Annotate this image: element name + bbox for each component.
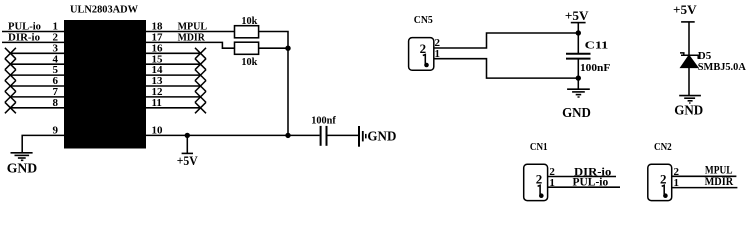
+5V power symbol (above D5) (673, 2, 697, 56)
wire pin 17 (MDIR) with jog to resistor (146, 31, 235, 48)
wire CN5 pin 1 to ground rail (434, 59, 579, 78)
svg-text:GND: GND (7, 162, 38, 177)
svg-text:CN1: CN1 (530, 142, 548, 153)
wire pin 2 (DIR-io) (2, 32, 64, 44)
wire pin 13 with no-connect X (146, 75, 206, 91)
wire CN5 pin 2 to +5V rail (434, 33, 579, 48)
svg-text:10k: 10k (241, 15, 258, 27)
svg-text:2: 2 (660, 171, 667, 186)
+5V power tap below rail (177, 135, 198, 168)
svg-text:+5V: +5V (565, 8, 589, 23)
ground symbol (right of 100nf, sideways) (359, 126, 396, 147)
svg-text:9: 9 (53, 125, 59, 137)
wire pin 3 with no-connect X (5, 42, 64, 58)
wire pin 5 with no-connect X (5, 64, 64, 80)
svg-text:10: 10 (152, 125, 164, 137)
resistor 10k (bottom) (235, 42, 259, 68)
svg-text:CN2: CN2 (654, 142, 672, 153)
svg-text:+5V: +5V (673, 2, 697, 17)
svg-text:8: 8 (53, 97, 59, 109)
wire pin 10 rail to capacitor (146, 125, 320, 137)
wire pin 18 (MPUL) to resistor (146, 21, 235, 33)
connector CN5 (409, 15, 441, 70)
connector CN1 (524, 142, 556, 201)
svg-text:GND: GND (674, 103, 703, 118)
svg-text:MPUL: MPUL (705, 165, 733, 177)
capacitor C11 100nF (566, 40, 611, 89)
ground symbol (pin 9) (7, 153, 38, 177)
svg-text:GND: GND (367, 130, 396, 145)
wire pin 16 with no-connect X (146, 42, 206, 58)
svg-text:10k: 10k (241, 56, 258, 68)
svg-text:MDIR: MDIR (178, 31, 206, 43)
wire pin 4 with no-connect X (5, 53, 64, 69)
resistor 10k (top) (235, 15, 259, 38)
junction at +5V tap (185, 133, 190, 138)
wire pin 14 with no-connect X (146, 64, 206, 80)
wire CN1 pin 1 (PUL-io) (548, 176, 620, 188)
+5V power symbol (above C11) (565, 8, 589, 54)
wire pin 15 with no-connect X (146, 53, 206, 69)
junction +5V rail meets CN5 pin2 (576, 30, 581, 35)
wire capacitor to ground (328, 134, 359, 136)
wire pin 9 to ground (22, 125, 64, 153)
capacitor 100nf (311, 115, 336, 146)
svg-text:D5: D5 (698, 50, 712, 62)
svg-text:ULN2803ADW: ULN2803ADW (70, 3, 138, 15)
svg-text:CN5: CN5 (414, 15, 433, 26)
svg-text:DIR-io: DIR-io (8, 32, 40, 44)
junction C11 bottom meets CN5 pin1 rail (576, 75, 581, 80)
wire CN1 pin 2 (DIR-io) (548, 166, 616, 178)
wire CN2 pin 1 (MDIR) (672, 176, 738, 188)
wire pin 6 with no-connect X (5, 75, 64, 91)
svg-text:SMBJ5.0A: SMBJ5.0A (698, 62, 746, 73)
svg-text:11: 11 (152, 97, 162, 109)
svg-text:MDIR: MDIR (705, 176, 734, 188)
svg-text:GND: GND (562, 105, 591, 120)
svg-text:PUL-io: PUL-io (573, 176, 609, 188)
wire from bottom resistor to junction (259, 47, 288, 49)
ground symbol (below D5) (674, 96, 703, 118)
diode D5 SMBJ5.0A (TVS) (680, 50, 746, 96)
svg-text:+5V: +5V (177, 154, 198, 168)
svg-text:2: 2 (536, 171, 543, 186)
wire pin 12 with no-connect X (146, 86, 206, 102)
wire pin 1 (PUL-io) (2, 21, 64, 33)
wire pin 7 with no-connect X (5, 86, 64, 102)
connector CN2 (648, 142, 680, 201)
ground symbol (below C11) (562, 89, 591, 120)
wire pin 8 with no-connect X (5, 97, 64, 113)
ic ULN2803ADW body (64, 3, 146, 148)
svg-text:100nF: 100nF (580, 62, 611, 74)
junction at resistor vertical on rail (285, 133, 290, 138)
svg-text:C11: C11 (585, 40, 609, 52)
wire CN2 pin 2 (MPUL) (672, 165, 737, 177)
wire pin 11 with no-connect X (146, 97, 206, 113)
svg-text:100nf: 100nf (311, 115, 336, 127)
junction at resistor net (285, 46, 290, 51)
wire from top resistor to +5V vertical (259, 32, 288, 136)
